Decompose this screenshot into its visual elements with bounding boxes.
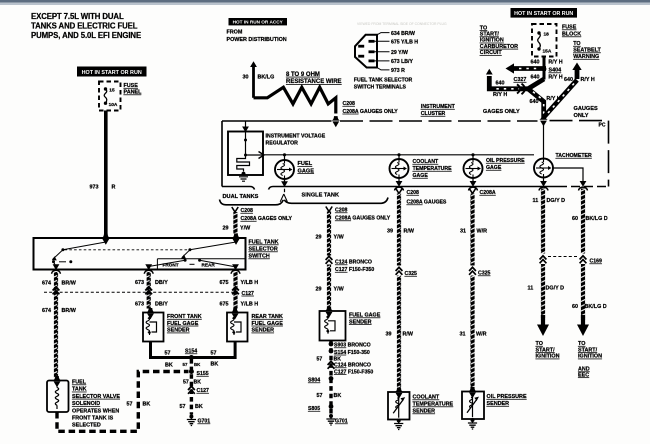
svg-text:GAGE: GAGE: [486, 165, 502, 171]
svg-text:11: 11: [533, 198, 539, 204]
svg-text:SOLENOID: SOLENOID: [72, 401, 100, 407]
svg-text:FUEL GAGE: FUEL GAGE: [167, 321, 199, 327]
svg-text:R/W: R/W: [404, 229, 415, 235]
svg-text:R/Y H: R/Y H: [581, 77, 595, 83]
svg-text:PC: PC: [599, 123, 606, 129]
svg-text:CARBURETOR: CARBURETOR: [480, 44, 518, 50]
svg-text:COOLANT: COOLANT: [413, 395, 440, 401]
splice S903: [329, 342, 334, 347]
svg-text:FUEL: FUEL: [72, 380, 87, 386]
svg-text:C127 F150-F350: C127 F150-F350: [334, 369, 373, 375]
svg-text:57: 57: [183, 362, 188, 367]
svg-text:PUMPS, AND 5.0L EFI ENGINE: PUMPS, AND 5.0L EFI ENGINE: [31, 31, 141, 40]
svg-text:S804: S804: [308, 378, 320, 384]
svg-text:OIL PRESSURE: OIL PRESSURE: [486, 158, 525, 164]
svg-text:BK: BK: [194, 380, 202, 386]
oil pressure sender: [468, 387, 476, 392]
svg-text:FUEL TANK: FUEL TANK: [249, 240, 279, 246]
svg-text:C127: C127: [242, 291, 255, 297]
connector C208 coolant: [396, 189, 402, 194]
svg-text:BR/W: BR/W: [62, 281, 77, 287]
svg-text:30: 30: [243, 75, 249, 81]
wire 57 BK rear sender to S154: [191, 342, 235, 358]
top blue bar: [0, 0, 650, 3]
svg-text:SINGLE TANK: SINGLE TANK: [302, 193, 340, 199]
svg-text:640: 640: [496, 80, 505, 86]
label HOT IN RUN OR ACCY: [229, 18, 288, 25]
svg-text:SENDER: SENDER: [167, 328, 190, 334]
entry bell into cluster: [539, 115, 547, 120]
fuel tank selector valve solenoid: [53, 376, 61, 381]
splice S154 (single tank): [329, 349, 334, 354]
svg-text:C327: C327: [514, 77, 527, 83]
svg-text:S903 BRONCO: S903 BRONCO: [334, 343, 371, 349]
svg-text:FUSE: FUSE: [124, 83, 139, 89]
svg-text:SEATBELT: SEATBELT: [573, 48, 601, 54]
wire 640 fuse block to S404: [543, 57, 546, 80]
svg-text:C208: C208: [335, 208, 348, 214]
svg-text:W/R: W/R: [477, 229, 488, 235]
svg-text:IGNITION: IGNITION: [536, 354, 560, 360]
svg-text:VIEWED FROM TERMINAL SIDE OF C: VIEWED FROM TERMINAL SIDE OF CONNECTOR P…: [357, 22, 447, 26]
svg-text:Y/LB H: Y/LB H: [241, 280, 259, 286]
svg-text:29: 29: [316, 287, 322, 293]
svg-text:GAGES ONLY: GAGES ONLY: [483, 109, 520, 115]
svg-text:C124 BRONCO: C124 BRONCO: [334, 363, 371, 369]
fuse panel F1: [99, 82, 121, 111]
svg-text:SENDER: SENDER: [487, 401, 510, 407]
svg-text:15A: 15A: [543, 48, 552, 54]
front tank fuel gage sender: [146, 308, 154, 313]
svg-text:EXCEPT 7.5L WITH DUAL: EXCEPT 7.5L WITH DUAL: [31, 12, 124, 21]
svg-text:SELECTOR VALVE: SELECTOR VALVE: [72, 394, 120, 400]
svg-text:TEMPERATURE: TEMPERATURE: [413, 166, 453, 172]
svg-text:DG/Y D: DG/Y D: [547, 198, 566, 204]
svg-text:START/: START/: [480, 32, 500, 38]
svg-text:R/Y H: R/Y H: [493, 92, 507, 98]
svg-text:FRONT TANK: FRONT TANK: [167, 314, 202, 320]
svg-text:FUEL GAGE: FUEL GAGE: [349, 313, 381, 319]
svg-text:C208: C208: [343, 101, 356, 107]
wire below single sender with splices: [329, 341, 332, 415]
svg-text:HOT IN START OR RUN: HOT IN START OR RUN: [514, 11, 573, 17]
arrow to start/ignition and EEC (wire 60): [577, 325, 589, 337]
wire 29 Y/W dual: [233, 212, 237, 234]
tach output wire to 60 exit: [553, 168, 583, 182]
svg-text:C208A GAUGES ONLY: C208A GAUGES ONLY: [335, 216, 391, 222]
svg-text:R: R: [112, 185, 116, 191]
svg-text:60: 60: [572, 216, 578, 222]
svg-text:57: 57: [127, 402, 133, 408]
connector C208 entry into cluster: [332, 116, 340, 121]
ground G701 (middle): [326, 414, 335, 425]
svg-text:640: 640: [530, 99, 539, 105]
svg-text:SWITCH TERMINALS: SWITCH TERMINALS: [354, 84, 407, 90]
wire arrow to start/ignition carburetor: [513, 66, 546, 71]
svg-text:G701: G701: [335, 419, 348, 425]
splice S155: [189, 369, 194, 374]
svg-text:BK: BK: [165, 363, 173, 369]
splice S154 junction dot: [189, 355, 194, 360]
svg-text:BK: BK: [195, 404, 203, 410]
svg-text:675: 675: [220, 302, 229, 308]
svg-text:C127 F150-F350: C127 F150-F350: [335, 267, 374, 273]
svg-text:31: 31: [460, 229, 466, 235]
svg-text:FUEL: FUEL: [298, 161, 313, 167]
svg-text:18: 18: [544, 32, 550, 38]
svg-text:640: 640: [564, 77, 573, 83]
svg-text:C208: C208: [407, 190, 420, 196]
svg-text:BK/LG D: BK/LG D: [585, 304, 607, 310]
svg-text:SWITCH: SWITCH: [249, 254, 270, 260]
fuse block F2: [532, 24, 557, 57]
svg-text:ONLY: ONLY: [574, 113, 589, 119]
svg-text:FRONT: FRONT: [163, 262, 179, 267]
svg-text:C208A GAGES ONLY: C208A GAGES ONLY: [241, 216, 293, 222]
svg-text:673 LB/Y: 673 LB/Y: [391, 59, 413, 65]
cluster bottom edge with exits: [222, 187, 255, 190]
svg-text:634 BR/W: 634 BR/W: [391, 31, 415, 37]
svg-text:OIL PRESSURE: OIL PRESSURE: [487, 394, 527, 400]
svg-text:57: 57: [317, 357, 323, 363]
svg-text:HOT IN START OR RUN: HOT IN START OR RUN: [82, 70, 142, 76]
cluster bus wire: [263, 154, 534, 156]
fuel gage: [284, 155, 286, 182]
svg-text:C208A GAUGES ONLY: C208A GAUGES ONLY: [343, 109, 399, 115]
svg-text:8 TO 9 OHM: 8 TO 9 OHM: [286, 72, 320, 78]
svg-text:R/Y H: R/Y H: [548, 60, 562, 66]
svg-text:TO: TO: [536, 341, 543, 347]
svg-text:SELECTED: SELECTED: [72, 423, 101, 429]
svg-text:BLOCK: BLOCK: [562, 32, 581, 38]
svg-text:640: 640: [531, 75, 540, 81]
svg-text:674: 674: [42, 281, 51, 287]
wire 39 R/W: [397, 194, 401, 266]
svg-text:SENDER: SENDER: [413, 409, 436, 415]
svg-text:INSTRUMENT: INSTRUMENT: [421, 104, 456, 110]
svg-text:PANEL: PANEL: [124, 90, 143, 96]
svg-text:S154 F150-350: S154 F150-350: [334, 350, 370, 356]
svg-text:10A: 10A: [109, 102, 118, 108]
wire 11 DG/Y D: [541, 189, 545, 254]
svg-text:11: 11: [528, 286, 534, 292]
svg-text:OPERATES WHEN: OPERATES WHEN: [72, 408, 119, 414]
svg-text:RESISTANCE WIRE: RESISTANCE WIRE: [286, 79, 342, 85]
svg-text:29 Y/W: 29 Y/W: [391, 50, 408, 56]
svg-text:C208A GAUGES: C208A GAUGES: [407, 200, 447, 206]
wire 673 DB/Y: [147, 272, 151, 309]
svg-text:SENDER: SENDER: [349, 319, 372, 325]
svg-text:60: 60: [572, 304, 578, 310]
svg-text:673: 673: [135, 302, 144, 308]
svg-text:39: 39: [386, 332, 392, 338]
connector C127 dashed line: [44, 291, 238, 293]
label HOT IN START OR RUN (right): [511, 8, 578, 18]
ground G701 (left): [187, 415, 196, 426]
svg-text:15: 15: [109, 87, 115, 93]
svg-text:POWER DISTRIBUTION: POWER DISTRIBUTION: [227, 37, 287, 43]
fuel tank selector switch box: [34, 238, 246, 270]
wire 640 down into cluster: [528, 89, 544, 118]
connector C169: [548, 256, 579, 258]
connector C169 (wire 11): [540, 256, 547, 263]
svg-text:WARNING: WARNING: [573, 54, 599, 60]
svg-text:REAR: REAR: [202, 262, 216, 267]
fuel gage sender (single tank): [325, 307, 333, 312]
svg-text:DB/Y: DB/Y: [155, 280, 168, 286]
arrow to start/ignition (wire 11): [537, 325, 549, 337]
svg-text:FROM: FROM: [227, 30, 243, 36]
wire 640 branch to seatbelt warning: [544, 80, 578, 118]
svg-text:674: 674: [42, 308, 51, 314]
svg-text:Y/W: Y/W: [334, 235, 345, 241]
connector C169 (wire 60): [580, 256, 587, 263]
label HOT IN START OR RUN (left): [77, 67, 147, 77]
svg-text:GAGE: GAGE: [298, 168, 315, 174]
svg-text:31: 31: [460, 332, 466, 338]
svg-text:TO: TO: [573, 41, 580, 47]
svg-text:29: 29: [223, 226, 229, 232]
svg-text:IGNITION: IGNITION: [480, 38, 504, 44]
coolant temperature sender: [395, 388, 403, 393]
splice S404 junction dot: [542, 67, 547, 72]
connector C127 on wires 674/673/675: [53, 287, 60, 295]
connector C208 dual tanks: [232, 207, 238, 212]
svg-text:SENDER: SENDER: [252, 328, 275, 334]
connector C325 (coolant wire): [396, 267, 403, 275]
connector C208A oil: [469, 189, 475, 194]
instrument voltage regulator: [245, 121, 247, 132]
svg-text:COOLANT: COOLANT: [413, 159, 439, 165]
svg-text:W/R: W/R: [476, 332, 487, 338]
connector C325 (oil wire): [469, 267, 476, 275]
coolant temperature gage: [398, 155, 400, 182]
terminal leader lines: [375, 33, 390, 70]
resistor 8 TO 9 OHM resistance wire: [254, 87, 336, 113]
svg-text:Y/W: Y/W: [240, 226, 251, 232]
svg-text:FUEL GAGE: FUEL GAGE: [252, 321, 284, 327]
svg-text:57: 57: [165, 351, 171, 357]
svg-text:TANK: TANK: [72, 387, 87, 393]
svg-text:DB/Y: DB/Y: [155, 302, 168, 308]
svg-text:TO: TO: [480, 25, 487, 31]
oil pressure gage: [472, 155, 474, 182]
wire 31 W/R: [470, 194, 474, 266]
svg-text:BK: BK: [194, 362, 201, 367]
svg-text:57: 57: [180, 404, 186, 410]
svg-text:CIRCUIT: CIRCUIT: [480, 50, 503, 56]
svg-text:39: 39: [387, 229, 393, 235]
svg-text:S404: S404: [549, 68, 562, 74]
wire S154 to S155 to C127 to G701: [190, 359, 193, 415]
svg-text:BK: BK: [143, 402, 151, 408]
svg-text:29: 29: [316, 235, 322, 241]
connector C127 (ground wire): [188, 386, 195, 394]
svg-text:BK/LG: BK/LG: [258, 75, 275, 81]
svg-text:C127: C127: [197, 388, 210, 394]
svg-text:REGULATOR: REGULATOR: [266, 140, 299, 146]
svg-text:S154: S154: [185, 349, 197, 355]
wire 973 R: [104, 111, 108, 239]
rear tank fuel gage sender: [231, 308, 239, 313]
svg-text:INSTRUMENT VOLTAGE: INSTRUMENT VOLTAGE: [266, 134, 326, 140]
svg-text:START/: START/: [578, 347, 598, 353]
svg-text:C325: C325: [478, 271, 491, 277]
svg-text:R/W: R/W: [403, 332, 414, 338]
svg-text:673: 673: [135, 280, 144, 286]
svg-text:C208A: C208A: [480, 190, 496, 196]
svg-text:EEC: EEC: [578, 372, 589, 378]
svg-text:C325: C325: [405, 271, 418, 277]
svg-text:G701: G701: [198, 419, 211, 425]
svg-text:Y/W: Y/W: [334, 287, 345, 293]
svg-text:57: 57: [183, 380, 189, 386]
svg-text:TEMPERATURE: TEMPERATURE: [413, 402, 454, 408]
svg-text:BR/W: BR/W: [62, 308, 77, 314]
svg-text:TANKS AND ELECTRIC FUEL: TANKS AND ELECTRIC FUEL: [31, 22, 138, 31]
svg-text:START/: START/: [536, 347, 556, 353]
svg-text:640: 640: [531, 60, 540, 66]
wire 674 BR/W: [54, 272, 58, 378]
connector C124 / C127: [328, 361, 335, 369]
svg-text:DUAL TANKS: DUAL TANKS: [223, 194, 259, 200]
svg-text:Y/LB H: Y/LB H: [241, 302, 259, 308]
svg-text:973 R: 973 R: [391, 68, 405, 74]
svg-text:BK: BK: [211, 362, 219, 368]
svg-text:675 Y/LB H: 675 Y/LB H: [391, 39, 418, 45]
wire 57 BK solenoid to S155 (dashed): [57, 372, 189, 432]
splice S804: [329, 376, 334, 381]
wire 675 Y/LB H: [233, 272, 237, 309]
wire 30 BK/LG from power distribution: [250, 61, 257, 67]
wire 60 BK/LG D: [581, 189, 585, 254]
wire 57 BK front sender to S154: [151, 342, 192, 358]
svg-text:FRONT TANK IS: FRONT TANK IS: [72, 416, 114, 422]
svg-text:FUEL TANK SELECTOR: FUEL TANK SELECTOR: [354, 78, 413, 84]
svg-text:57: 57: [211, 351, 217, 357]
exit bells: [395, 187, 404, 190]
svg-text:973: 973: [90, 185, 99, 191]
svg-text:BK/LG D: BK/LG D: [586, 216, 608, 222]
svg-text:DG/Y D: DG/Y D: [546, 286, 565, 292]
svg-text:GAGE: GAGE: [413, 173, 429, 179]
svg-text:REAR TANK: REAR TANK: [252, 314, 283, 320]
svg-text:C208: C208: [241, 208, 254, 214]
svg-text:TACHOMETER: TACHOMETER: [556, 153, 592, 159]
svg-text:SELECTOR: SELECTOR: [249, 247, 278, 253]
splice S805: [329, 404, 334, 409]
connector C208 single tank: [326, 207, 332, 212]
svg-text:TO: TO: [578, 341, 585, 347]
svg-text:CLUSTER: CLUSTER: [421, 111, 446, 117]
tachometer: [543, 121, 545, 159]
switch internals: [102, 234, 110, 239]
svg-text:S805: S805: [308, 406, 320, 412]
svg-text:675: 675: [220, 280, 229, 286]
svg-text:S155: S155: [197, 371, 209, 377]
svg-text:HOT IN RUN OR ACCY: HOT IN RUN OR ACCY: [233, 20, 284, 25]
wire 29 Y/W single: [327, 212, 331, 256]
switch exits: [53, 264, 60, 270]
svg-text:GAUGES: GAUGES: [574, 106, 599, 112]
svg-text:FUSE: FUSE: [562, 25, 577, 31]
svg-text:57: 57: [317, 393, 323, 399]
svg-text:BK: BK: [334, 393, 342, 399]
svg-text:IGNITION: IGNITION: [578, 354, 602, 360]
svg-text:R/Y H: R/Y H: [548, 75, 562, 81]
svg-text:C124 BRONCO: C124 BRONCO: [335, 260, 372, 266]
svg-text:C169: C169: [590, 259, 603, 265]
